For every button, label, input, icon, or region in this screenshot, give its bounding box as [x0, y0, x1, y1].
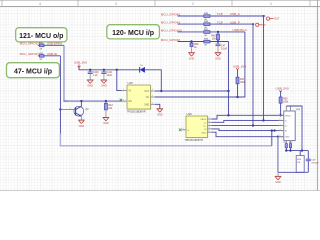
svg-text:4700pF: 4700pF — [311, 163, 319, 165]
svg-text:R52: R52 — [289, 142, 292, 144]
wire rowB left — [38, 55, 61, 57]
svg-text:4: 4 — [280, 129, 281, 131]
ground below C141 — [101, 80, 108, 88]
svg-text:0.1uF: 0.1uF — [221, 48, 228, 51]
svg-text:R51: R51 — [284, 142, 287, 144]
svg-text:0E: 0E — [205, 44, 208, 46]
wire EN horizontal — [64, 100, 123, 102]
node collector junction — [80, 100, 82, 102]
node OC divider junction — [236, 96, 238, 98]
resistor R40 10k — [211, 32, 219, 42]
pin D2 U16 — [203, 124, 211, 128]
node row2 drop — [252, 23, 254, 25]
svg-text:D-: D- — [204, 122, 207, 124]
node rail C141 — [103, 69, 105, 71]
svg-text:5: 5 — [280, 135, 281, 137]
pin D4 U16 — [201, 130, 211, 134]
svg-text:EN: EN — [129, 101, 133, 103]
resistor R42 — [39, 53, 44, 61]
svg-text:4: 4 — [209, 127, 210, 129]
ground below R43 — [103, 118, 110, 126]
resistor R37 — [204, 29, 210, 37]
svg-text:USB-EPEN: USB-EPEN — [47, 42, 62, 46]
svg-text:USB_5V0: USB_5V0 — [233, 64, 247, 68]
svg-text:5: 5 — [183, 128, 184, 130]
node row4 R48 — [190, 40, 192, 42]
ground below C47 — [215, 53, 222, 61]
svg-text:U16: U16 — [187, 112, 193, 116]
svg-text:USB-PD-C: USB-PD-C — [233, 28, 248, 32]
node diode OUT junction — [160, 90, 162, 92]
node ID junction — [271, 129, 273, 131]
svg-text:USB_5V0: USB_5V0 — [276, 87, 290, 91]
svg-text:GND: GND — [101, 85, 107, 88]
wire row3 — [178, 31, 245, 33]
svg-text:USB_P: USB_P — [230, 20, 240, 24]
resistor R41 — [39, 42, 44, 50]
svg-text:TCP: TCP — [217, 20, 223, 24]
port OUT row1 — [266, 17, 280, 21]
pin VBUS U16 — [200, 117, 211, 121]
resistor R43 10k — [104, 101, 113, 117]
svg-text:OUT: OUT — [274, 17, 280, 21]
connector P4 body — [284, 108, 301, 141]
capacitor C49 4700pF — [306, 151, 320, 173]
callout 121- MCU o/p — [16, 28, 67, 42]
pin IN U15 — [122, 89, 132, 93]
wire OC net — [155, 32, 245, 97]
svg-text:GND: GND — [275, 181, 281, 184]
power port arrow USB_5V0 vbus — [279, 90, 282, 92]
ground shield — [275, 176, 282, 184]
svg-text:TCP: TCP — [217, 12, 223, 16]
svg-text:D4: D4 — [140, 65, 144, 67]
svg-text:4: 4 — [123, 89, 124, 91]
svg-text:U15: U15 — [128, 81, 134, 85]
ground below R48 — [188, 53, 195, 61]
wire row2 vertical to D+ — [252, 24, 254, 126]
node ID junction b — [273, 129, 275, 131]
wire row1 vertical to D- — [263, 16, 265, 120]
svg-text:3: 3 — [123, 99, 124, 101]
wire row4 — [178, 41, 229, 43]
resistor R48 1k — [190, 42, 199, 53]
ground below Q9 — [78, 120, 85, 128]
node shield a — [285, 149, 287, 151]
node VBUS resistor junction — [279, 114, 281, 116]
svg-text:TPD4S012DRYR: TPD4S012DRYR — [185, 139, 204, 142]
wire D- staircase — [212, 120, 284, 122]
svg-text:6: 6 — [209, 130, 210, 132]
svg-text:USB_5V0: USB_5V0 — [74, 61, 88, 65]
svg-text:USB-ID: USB-ID — [47, 52, 58, 56]
svg-text:OC: OC — [146, 97, 150, 99]
sheet bottom border — [0, 189, 320, 191]
svg-text:0E: 0E — [205, 35, 208, 37]
svg-text:5V: 5V — [262, 23, 265, 27]
node VBUS sense junction — [227, 114, 229, 116]
svg-text:D-: D- — [285, 120, 288, 122]
node rail IN drop — [116, 69, 118, 71]
wire VBUS staircase — [212, 115, 284, 119]
resistor R47 100k — [236, 70, 246, 97]
svg-text:GND: GND — [157, 114, 163, 117]
pin D- P4 — [279, 119, 288, 123]
svg-text:USB_A: USB_A — [230, 12, 240, 16]
wire GND staircase — [212, 132, 284, 137]
pin GND U15 — [144, 103, 155, 107]
wire OUT net — [155, 90, 229, 92]
svg-text:3: 3 — [280, 124, 281, 126]
ground below C140 — [87, 80, 94, 88]
node R43 junction — [105, 100, 107, 102]
svg-text:G: G — [187, 130, 189, 132]
node GND junction — [277, 136, 279, 138]
svg-text:GND: GND — [79, 125, 85, 128]
svg-text:47- MCU i/p: 47- MCU i/p — [14, 68, 52, 75]
wire rail to IN pin — [117, 70, 122, 91]
resistor R38 — [204, 21, 210, 29]
wire long ID net horizontal — [60, 134, 271, 146]
svg-text:GND: GND — [189, 57, 195, 60]
svg-text:100k: 100k — [240, 81, 246, 84]
svg-text:VBUS: VBUS — [285, 115, 291, 117]
node row1 drop — [263, 15, 265, 17]
pin D3 U16 — [204, 127, 211, 131]
capacitor C140 1uF — [88, 70, 100, 80]
svg-text:0E: 0E — [40, 59, 43, 61]
no-ERC marker EN pin — [120, 99, 123, 101]
wire shield ground — [278, 137, 308, 177]
wire row2 — [178, 23, 255, 25]
svg-text:GND: GND — [103, 122, 109, 125]
op-amp U15 TPS2051 body — [127, 81, 152, 113]
power port arrow USB_5V0 divider — [236, 68, 239, 70]
svg-text:2: 2 — [209, 121, 210, 123]
capacitor C47 0.1uF — [216, 42, 228, 53]
wire rowB vertical — [59, 56, 61, 134]
wire U15 GND pin — [155, 104, 160, 108]
svg-text:2: 2 — [280, 119, 281, 121]
wire row1 — [178, 15, 266, 17]
op-amp U16 TPD4S012 body — [185, 112, 209, 142]
svg-text:VBUS: VBUS — [200, 119, 206, 121]
wire ID net rise — [271, 131, 273, 146]
node D+ junction — [252, 124, 254, 126]
node base junction — [59, 108, 61, 110]
svg-text:1k: 1k — [194, 46, 197, 49]
sheet ruler band — [0, 0, 320, 6]
node shield b — [289, 149, 291, 151]
node row4 C47 — [217, 40, 219, 42]
port 5V0 row2 — [256, 23, 266, 27]
pin D+ P4 — [279, 124, 289, 128]
resistor R50 100k — [279, 91, 289, 115]
node OUT sense junction — [227, 90, 229, 92]
node D- junction — [262, 119, 264, 121]
resistor R53 1M — [296, 151, 304, 173]
sheet right border — [317, 0, 319, 191]
svg-text:MCU_GPIO47: MCU_GPIO47 — [20, 52, 40, 56]
svg-text:121- MCU o/p: 121- MCU o/p — [19, 33, 63, 40]
wire rowA vertical to EN — [64, 45, 68, 101]
diode D4 — [140, 65, 145, 73]
svg-text:GND: GND — [144, 104, 149, 106]
svg-text:OUT: OUT — [144, 91, 149, 93]
svg-text:MCU_GPIO121: MCU_GPIO121 — [20, 42, 41, 46]
svg-text:1 uF: 1 uF — [93, 74, 98, 77]
svg-text:GND: GND — [215, 57, 221, 60]
pin D1 U16 — [204, 121, 212, 125]
svg-text:10k: 10k — [108, 107, 113, 110]
pin ID P4 — [279, 129, 288, 133]
wire 5V rail — [79, 68, 140, 70]
svg-text:0E: 0E — [40, 49, 43, 51]
resistor R51 shield a — [284, 141, 288, 151]
svg-text:GND: GND — [285, 137, 290, 139]
pin OC U15 — [146, 95, 155, 99]
no-ERC marker U16 — [179, 129, 182, 132]
node rail C140 — [89, 69, 91, 71]
wire D+ straight — [212, 125, 284, 127]
svg-text:10k: 10k — [212, 38, 217, 41]
resistor R36 — [204, 39, 210, 47]
svg-text:1: 1 — [152, 103, 153, 105]
svg-text:GND: GND — [87, 85, 93, 88]
svg-text:C49: C49 — [311, 160, 316, 162]
svg-text:2: 2 — [152, 95, 153, 97]
resistor R52 shield b — [289, 141, 292, 151]
wire ID staircase — [212, 129, 284, 131]
pin GND P4 — [279, 135, 291, 139]
ground U15 — [157, 109, 164, 117]
svg-text:P4: P4 — [297, 108, 301, 112]
pin VBUS P4 — [279, 114, 292, 118]
svg-text:1: 1 — [209, 117, 210, 119]
svg-text:IN: IN — [129, 91, 132, 93]
svg-text:10uF: 10uF — [107, 74, 113, 77]
transistor Q9 — [60, 101, 89, 120]
callout 47- MCU i/p — [7, 63, 60, 78]
pin GND U16 left — [182, 128, 190, 132]
svg-text:GND: GND — [201, 132, 206, 134]
wire row4 vertical sense — [228, 42, 230, 116]
svg-text:120- MCU i/p: 120- MCU i/p — [112, 30, 154, 37]
node shield c — [301, 149, 303, 151]
wire diode to OUT drop — [145, 70, 161, 91]
callout 120- MCU i/p — [107, 25, 160, 39]
wire rowA left — [38, 44, 64, 46]
svg-text:TPS2051BDBVR: TPS2051BDBVR — [127, 111, 146, 114]
power port arrow USB_5V0 — [78, 64, 81, 67]
capacitor C141 10uF — [101, 70, 113, 80]
svg-text:1M: 1M — [297, 162, 300, 164]
node row3 R40 tap — [217, 31, 219, 33]
pin OUT U15 — [144, 89, 155, 93]
svg-text:5: 5 — [152, 89, 153, 91]
wire shield top pins — [286, 106, 302, 151]
resistor R39 — [204, 13, 210, 21]
wire shield net — [286, 150, 308, 152]
svg-text:Q9: Q9 — [85, 108, 89, 111]
svg-text:100k: 100k — [283, 101, 289, 104]
pin EN U15 — [122, 99, 132, 103]
svg-text:3: 3 — [209, 124, 210, 126]
